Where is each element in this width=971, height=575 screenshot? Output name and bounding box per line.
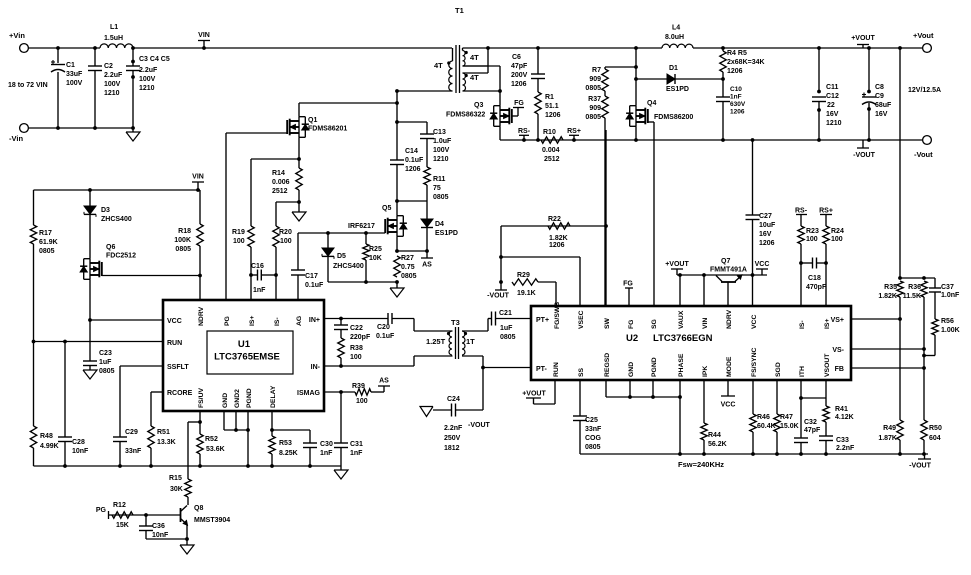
svg-text:-VOUT: -VOUT: [853, 152, 876, 159]
svg-text:SGD: SGD: [775, 362, 782, 377]
svg-text:0.004: 0.004: [542, 147, 560, 154]
svg-text:C1: C1: [66, 62, 75, 69]
svg-text:R53: R53: [279, 440, 292, 447]
svg-text:IPK: IPK: [702, 366, 709, 377]
svg-text:VIN: VIN: [198, 32, 210, 39]
svg-text:R48: R48: [40, 433, 53, 440]
svg-text:IRF6217: IRF6217: [348, 223, 375, 230]
svg-text:C12: C12: [826, 93, 839, 100]
svg-text:22: 22: [827, 102, 835, 109]
svg-text:8.0uH: 8.0uH: [665, 34, 684, 41]
svg-text:4.99K: 4.99K: [40, 443, 59, 450]
svg-text:0805: 0805: [585, 114, 601, 121]
svg-text:+Vout: +Vout: [913, 31, 934, 40]
svg-text:LTC3765EMSE: LTC3765EMSE: [214, 352, 280, 363]
svg-text:REGSD: REGSD: [604, 353, 611, 377]
svg-text:4T: 4T: [470, 53, 479, 62]
svg-text:4T: 4T: [434, 61, 443, 70]
svg-text:0805: 0805: [39, 248, 55, 255]
svg-text:FB: FB: [835, 366, 844, 373]
svg-text:R11: R11: [433, 176, 446, 183]
svg-text:GND: GND: [628, 362, 635, 377]
svg-text:8.25K: 8.25K: [279, 450, 298, 457]
svg-text:2x68K=34K: 2x68K=34K: [727, 59, 765, 66]
svg-text:1.25T: 1.25T: [426, 337, 446, 346]
svg-text:51.1: 51.1: [545, 103, 559, 110]
svg-text:C11: C11: [826, 84, 839, 91]
svg-text:VAUX: VAUX: [678, 310, 685, 329]
svg-text:1nF: 1nF: [350, 450, 363, 457]
svg-text:100V: 100V: [104, 81, 121, 88]
svg-text:C13: C13: [433, 129, 446, 136]
svg-text:D5: D5: [337, 253, 346, 260]
svg-text:1206: 1206: [759, 240, 775, 247]
svg-text:2512: 2512: [544, 156, 560, 163]
svg-text:R29: R29: [517, 272, 530, 279]
svg-text:C25: C25: [585, 417, 598, 424]
svg-text:0805: 0805: [433, 194, 449, 201]
svg-text:18 to 72 VIN: 18 to 72 VIN: [8, 82, 48, 89]
svg-text:1.00K: 1.00K: [941, 327, 960, 334]
svg-text:R25: R25: [369, 246, 382, 253]
svg-text:C6: C6: [512, 54, 521, 61]
svg-text:FDMS86200: FDMS86200: [654, 114, 693, 121]
svg-text:RUN: RUN: [553, 362, 560, 377]
svg-text:R24: R24: [831, 228, 844, 235]
svg-text:200V: 200V: [511, 72, 528, 79]
svg-text:R49: R49: [883, 425, 896, 432]
svg-text:R50: R50: [929, 425, 942, 432]
svg-text:L1: L1: [110, 24, 118, 31]
svg-text:R36: R36: [908, 284, 921, 291]
svg-text:2.2nF: 2.2nF: [836, 445, 855, 452]
svg-text:4.12K: 4.12K: [835, 414, 854, 421]
svg-text:FG: FG: [514, 100, 524, 107]
svg-text:PGND: PGND: [651, 357, 658, 377]
svg-text:33nF: 33nF: [585, 426, 602, 433]
svg-text:1210: 1210: [104, 90, 120, 97]
svg-text:100: 100: [806, 236, 818, 243]
svg-text:1206: 1206: [727, 68, 743, 75]
svg-text:C29: C29: [125, 429, 138, 436]
svg-text:LTC3766EGN: LTC3766EGN: [653, 333, 713, 344]
svg-text:100V: 100V: [66, 80, 83, 87]
svg-text:R51: R51: [157, 429, 170, 436]
svg-text:C36: C36: [152, 523, 165, 530]
svg-text:Q7: Q7: [721, 258, 730, 265]
svg-text:10nF: 10nF: [72, 448, 89, 455]
svg-text:60.4K: 60.4K: [757, 423, 776, 430]
svg-text:FMMT491A: FMMT491A: [710, 267, 747, 274]
svg-text:FG/SWB: FG/SWB: [554, 302, 561, 329]
svg-text:PG: PG: [224, 316, 231, 326]
svg-text:R39: R39: [352, 383, 365, 390]
svg-text:PT+: PT+: [536, 317, 549, 324]
svg-text:C18: C18: [808, 275, 821, 282]
svg-text:1206: 1206: [730, 109, 745, 116]
svg-text:PT-: PT-: [536, 366, 548, 373]
svg-text:C32: C32: [804, 419, 817, 426]
svg-text:56.2K: 56.2K: [708, 441, 727, 448]
svg-text:+VOUT: +VOUT: [851, 35, 875, 42]
svg-text:R12: R12: [113, 502, 126, 509]
svg-text:1210: 1210: [826, 120, 842, 127]
svg-text:ES1PD: ES1PD: [435, 230, 458, 237]
svg-text:1206: 1206: [405, 166, 421, 173]
svg-text:100: 100: [356, 398, 368, 405]
svg-text:C28: C28: [72, 439, 85, 446]
svg-text:U2: U2: [626, 333, 638, 344]
svg-text:Q4: Q4: [647, 100, 656, 107]
svg-text:AS: AS: [422, 262, 432, 269]
svg-text:909: 909: [589, 76, 601, 83]
svg-text:1812: 1812: [444, 445, 460, 452]
svg-text:RS+: RS+: [819, 208, 833, 215]
svg-text:1nF: 1nF: [730, 94, 742, 101]
svg-text:1uF: 1uF: [500, 325, 513, 332]
svg-text:0.1uF: 0.1uF: [405, 157, 424, 164]
svg-text:11.5K: 11.5K: [903, 293, 921, 300]
svg-text:SSFLT: SSFLT: [167, 364, 189, 371]
svg-text:-Vin: -Vin: [9, 134, 23, 143]
svg-text:NDRV: NDRV: [726, 309, 733, 329]
svg-text:R20: R20: [279, 229, 292, 236]
svg-text:VIN: VIN: [192, 174, 204, 181]
svg-text:1206: 1206: [511, 81, 527, 88]
svg-text:1.0uF: 1.0uF: [433, 138, 452, 145]
svg-text:100: 100: [280, 238, 292, 245]
svg-text:ZHCS400: ZHCS400: [333, 263, 364, 270]
svg-text:C9: C9: [875, 93, 884, 100]
svg-text:C24: C24: [447, 396, 460, 403]
svg-text:VSOUT: VSOUT: [824, 353, 831, 377]
svg-text:R47: R47: [780, 414, 793, 421]
svg-text:ZHCS400: ZHCS400: [101, 216, 132, 223]
svg-text:16V: 16V: [759, 231, 772, 238]
svg-text:D1: D1: [669, 65, 678, 72]
svg-text:Q6: Q6: [106, 244, 115, 251]
svg-text:100: 100: [831, 236, 843, 243]
svg-text:C21: C21: [499, 310, 512, 317]
svg-text:VCC: VCC: [751, 315, 758, 329]
svg-text:FDC2512: FDC2512: [106, 253, 136, 260]
svg-text:R23: R23: [806, 228, 819, 235]
svg-text:AS: AS: [379, 378, 389, 385]
svg-text:15.0K: 15.0K: [780, 423, 799, 430]
svg-text:2.2uF: 2.2uF: [104, 72, 123, 79]
svg-text:C23: C23: [99, 350, 112, 357]
svg-text:12V/12.5A: 12V/12.5A: [908, 87, 941, 94]
svg-text:DELAY: DELAY: [270, 385, 277, 408]
svg-text:IS-: IS-: [799, 320, 806, 329]
svg-text:AG: AG: [296, 316, 303, 326]
svg-text:RUN: RUN: [167, 340, 182, 347]
svg-text:IN-: IN-: [311, 364, 321, 371]
svg-text:0805: 0805: [585, 85, 601, 92]
svg-text:RS+: RS+: [567, 128, 581, 135]
svg-text:100V: 100V: [433, 147, 450, 154]
svg-text:4T: 4T: [470, 73, 479, 82]
svg-text:VIN: VIN: [702, 318, 709, 329]
svg-text:0805: 0805: [401, 273, 417, 280]
svg-text:L4: L4: [672, 25, 680, 32]
svg-text:R22: R22: [548, 216, 561, 223]
svg-text:0.1uF: 0.1uF: [305, 282, 324, 289]
svg-text:C30: C30: [320, 441, 333, 448]
svg-text:R46: R46: [757, 414, 770, 421]
svg-text:1206: 1206: [549, 242, 565, 249]
svg-text:ITH: ITH: [799, 366, 806, 377]
svg-text:-Vout: -Vout: [914, 150, 933, 159]
svg-text:COG: COG: [585, 435, 602, 442]
svg-text:1T: 1T: [466, 337, 475, 346]
svg-text:-VOUT: -VOUT: [909, 463, 932, 470]
svg-text:SG: SG: [651, 319, 658, 329]
svg-text:FG: FG: [623, 281, 633, 288]
svg-text:VS+: VS+: [831, 317, 844, 324]
svg-text:FS/SYNC: FS/SYNC: [751, 347, 758, 377]
svg-text:0805: 0805: [99, 368, 115, 375]
svg-text:Q5: Q5: [382, 205, 391, 212]
svg-text:R27: R27: [401, 255, 414, 262]
svg-text:19.1K: 19.1K: [517, 290, 536, 297]
svg-text:C16: C16: [251, 263, 264, 270]
svg-text:ES1PD: ES1PD: [666, 86, 689, 93]
svg-text:604: 604: [929, 435, 941, 442]
svg-text:FG: FG: [628, 320, 635, 329]
svg-text:15K: 15K: [116, 522, 129, 529]
svg-text:IS+: IS+: [824, 319, 831, 329]
svg-text:75: 75: [433, 185, 441, 192]
svg-text:30K: 30K: [170, 486, 183, 493]
svg-text:33uF: 33uF: [66, 71, 83, 78]
svg-text:100K: 100K: [174, 237, 191, 244]
svg-text:470pF: 470pF: [806, 284, 827, 291]
svg-text:U1: U1: [238, 339, 251, 350]
svg-text:33nF: 33nF: [125, 448, 142, 455]
svg-text:2.2nF: 2.2nF: [444, 425, 463, 432]
svg-text:100V: 100V: [139, 76, 156, 83]
svg-text:VCC: VCC: [755, 261, 770, 268]
svg-text:PHASE: PHASE: [678, 353, 685, 377]
svg-text:R4 R5: R4 R5: [727, 50, 747, 57]
svg-text:1uF: 1uF: [99, 359, 112, 366]
svg-text:R1: R1: [545, 94, 554, 101]
svg-text:NDRV: NDRV: [198, 306, 205, 326]
svg-text:GND: GND: [222, 393, 229, 408]
svg-text:16V: 16V: [875, 111, 888, 118]
svg-text:1.82K: 1.82K: [549, 235, 568, 242]
svg-text:53.6K: 53.6K: [206, 446, 225, 453]
svg-text:+Vin: +Vin: [9, 31, 25, 40]
svg-text:D4: D4: [435, 221, 444, 228]
svg-text:VCC: VCC: [721, 402, 736, 409]
svg-text:2512: 2512: [272, 188, 288, 195]
svg-text:10nF: 10nF: [152, 532, 169, 539]
svg-text:16V: 16V: [826, 111, 839, 118]
svg-text:C27: C27: [759, 213, 772, 220]
svg-text:R41: R41: [835, 406, 848, 413]
svg-text:1.5uH: 1.5uH: [104, 35, 123, 42]
svg-text:1.82K: 1.82K: [878, 293, 897, 300]
svg-text:10uF: 10uF: [759, 222, 776, 229]
svg-text:C14: C14: [405, 148, 418, 155]
svg-text:R52: R52: [205, 436, 218, 443]
svg-text:68uF: 68uF: [875, 102, 892, 109]
svg-text:61.9K: 61.9K: [39, 239, 58, 246]
svg-text:PGND: PGND: [246, 388, 253, 408]
svg-text:1.0nF: 1.0nF: [941, 292, 960, 299]
svg-text:0.1uF: 0.1uF: [376, 333, 395, 340]
svg-text:R18: R18: [178, 228, 191, 235]
svg-text:SS: SS: [578, 367, 585, 377]
svg-text:C17: C17: [305, 273, 318, 280]
svg-text:VSEC: VSEC: [578, 310, 585, 329]
svg-text:C20: C20: [377, 324, 390, 331]
svg-text:IS-: IS-: [274, 317, 281, 326]
svg-text:R19: R19: [232, 229, 245, 236]
svg-text:R7: R7: [592, 67, 601, 74]
svg-text:VS-: VS-: [832, 347, 844, 354]
svg-text:220pF: 220pF: [350, 334, 371, 341]
svg-text:R38: R38: [350, 345, 363, 352]
svg-text:1nF: 1nF: [320, 450, 333, 457]
svg-text:R14: R14: [272, 170, 285, 177]
svg-text:1210: 1210: [433, 156, 449, 163]
svg-text:T1: T1: [455, 6, 464, 15]
svg-text:100: 100: [350, 354, 362, 361]
svg-text:R15: R15: [169, 475, 182, 482]
svg-text:250V: 250V: [444, 435, 461, 442]
svg-text:0805: 0805: [500, 334, 516, 341]
svg-text:D3: D3: [101, 207, 110, 214]
svg-text:IS+: IS+: [249, 316, 256, 326]
svg-text:100: 100: [233, 238, 245, 245]
svg-text:C22: C22: [350, 325, 363, 332]
svg-text:C37: C37: [941, 284, 954, 291]
svg-text:RS-: RS-: [795, 208, 808, 215]
svg-text:C3 C4 C5: C3 C4 C5: [139, 56, 170, 63]
svg-text:T3: T3: [451, 318, 460, 327]
svg-text:GND2: GND2: [234, 389, 241, 408]
svg-text:909: 909: [589, 105, 601, 112]
svg-text:1nF: 1nF: [253, 287, 266, 294]
svg-text:Fsw=240KHz: Fsw=240KHz: [678, 460, 724, 469]
svg-text:R44: R44: [708, 432, 721, 439]
svg-text:Q1: Q1: [308, 117, 317, 124]
svg-text:SW: SW: [604, 317, 611, 329]
svg-text:+VOUT: +VOUT: [665, 261, 689, 268]
svg-text:0805: 0805: [175, 246, 191, 253]
svg-text:FDMS86322: FDMS86322: [446, 112, 485, 119]
svg-text:1.87K: 1.87K: [878, 435, 897, 442]
svg-text:FDMS86201: FDMS86201: [308, 126, 347, 133]
svg-text:630V: 630V: [730, 101, 746, 108]
svg-text:MMST3904: MMST3904: [194, 517, 230, 524]
svg-text:Q8: Q8: [194, 505, 203, 512]
svg-text:C33: C33: [836, 437, 849, 444]
svg-text:-VOUT: -VOUT: [487, 293, 510, 300]
svg-text:47pF: 47pF: [804, 427, 821, 434]
svg-text:C31: C31: [350, 441, 363, 448]
svg-text:0.006: 0.006: [272, 179, 290, 186]
svg-text:Q3: Q3: [474, 102, 483, 109]
svg-text:R35: R35: [884, 284, 897, 291]
svg-text:RS-: RS-: [518, 128, 531, 135]
svg-text:FS/UV: FS/UV: [198, 388, 205, 408]
svg-text:R17: R17: [39, 230, 52, 237]
svg-text:MODE: MODE: [726, 356, 733, 377]
svg-text:RCORE: RCORE: [167, 390, 193, 397]
svg-text:10K: 10K: [369, 255, 382, 262]
svg-text:C2: C2: [104, 63, 113, 70]
svg-text:0805: 0805: [585, 444, 601, 451]
svg-text:13.3K: 13.3K: [157, 439, 176, 446]
svg-text:C8: C8: [875, 84, 884, 91]
svg-text:R56: R56: [941, 318, 954, 325]
svg-text:47pF: 47pF: [511, 63, 528, 70]
svg-text:2.2uF: 2.2uF: [139, 67, 158, 74]
svg-text:+VOUT: +VOUT: [522, 391, 546, 398]
svg-text:R37: R37: [588, 96, 601, 103]
svg-text:PG: PG: [96, 507, 107, 514]
svg-text:C10: C10: [730, 86, 742, 93]
svg-text:VCC: VCC: [167, 318, 182, 325]
svg-text:1206: 1206: [545, 112, 561, 119]
svg-text:IN+: IN+: [309, 317, 320, 324]
svg-text:-VOUT: -VOUT: [468, 422, 491, 429]
svg-text:R10: R10: [543, 129, 556, 136]
svg-text:1210: 1210: [139, 85, 155, 92]
svg-text:ISMAG: ISMAG: [297, 390, 321, 397]
svg-text:0.75: 0.75: [401, 264, 415, 271]
